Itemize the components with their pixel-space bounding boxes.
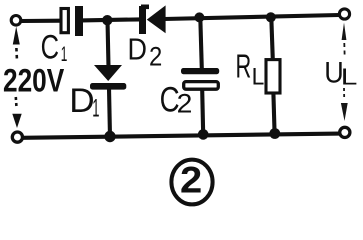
terminal bottom-left xyxy=(12,132,22,142)
svg-text:2: 2 xyxy=(177,88,193,118)
diode D1 triangle xyxy=(94,65,122,81)
dimension arrow upper-right dashed stem xyxy=(343,43,345,58)
terminal bottom-right xyxy=(340,127,350,137)
diode D1 cathode bar xyxy=(90,83,126,90)
svg-text:L: L xyxy=(252,63,265,90)
wire RL column upper xyxy=(271,17,273,60)
svg-text:2: 2 xyxy=(180,160,202,201)
svg-text:D: D xyxy=(128,33,147,67)
capacitor C1 right plate (solid) xyxy=(75,6,83,36)
figure number circled 2: circle xyxy=(171,160,212,205)
wire RL column lower xyxy=(273,93,274,134)
node junction J4 (D1 bottom) xyxy=(104,131,115,142)
dimension arrow lower-left (down arrowhead) xyxy=(12,114,21,128)
label C2 xyxy=(160,79,193,119)
terminal top-right xyxy=(339,9,349,19)
diode D2 triangle xyxy=(147,5,166,33)
dimension arrow lower-left dashed stem xyxy=(15,97,18,106)
label RL xyxy=(236,48,265,90)
label D2 xyxy=(128,33,163,72)
node junction J5 (C2 bottom) xyxy=(198,129,209,140)
node junction J3 xyxy=(266,12,276,22)
capacitor C2 top plate (solid) xyxy=(181,68,219,74)
svg-text:1: 1 xyxy=(61,41,68,66)
wire top rail left segment xyxy=(21,19,61,23)
dimension arrow lower-right dashed stem xyxy=(343,88,345,98)
svg-text:C: C xyxy=(41,29,59,66)
label D1 xyxy=(69,81,99,123)
wire D1 column lower xyxy=(109,88,110,137)
diode D2 cathode bar xyxy=(139,6,146,34)
node junction J1 xyxy=(102,15,112,25)
resistor RL body xyxy=(266,60,280,93)
label UL xyxy=(324,56,357,90)
wire D1 column upper xyxy=(108,20,109,67)
svg-text:D: D xyxy=(69,81,94,120)
capacitor C1 left plate (hollow) xyxy=(61,9,68,33)
node junction J2 xyxy=(194,12,204,22)
dimension arrow upper-left dashed stem xyxy=(15,48,18,61)
node junction J6 (RL bottom) xyxy=(269,128,280,139)
terminal top-left xyxy=(11,15,21,25)
dimension arrow lower-right (down arrowhead) xyxy=(341,103,348,121)
diode D2 bar top nub xyxy=(141,5,149,10)
wire top rail right segment (D2 to right terminal) xyxy=(164,15,339,19)
label C1 xyxy=(41,29,68,66)
svg-text:220V: 220V xyxy=(3,64,65,99)
capacitor C2 bottom plate (hollow) xyxy=(184,82,219,90)
svg-text:L: L xyxy=(341,64,358,90)
svg-text:2: 2 xyxy=(149,42,162,71)
svg-text:R: R xyxy=(236,48,252,85)
dimension arrow upper-left (up arrowhead) xyxy=(13,27,20,45)
dimension arrow upper-right (up arrowhead) xyxy=(342,23,347,41)
svg-text:1: 1 xyxy=(92,95,99,123)
wire top rail middle segment (C1 to D2) xyxy=(81,19,140,20)
wire C2 column lower xyxy=(202,90,203,135)
wire C2 column upper xyxy=(200,18,202,70)
wire bottom rail xyxy=(22,134,340,138)
